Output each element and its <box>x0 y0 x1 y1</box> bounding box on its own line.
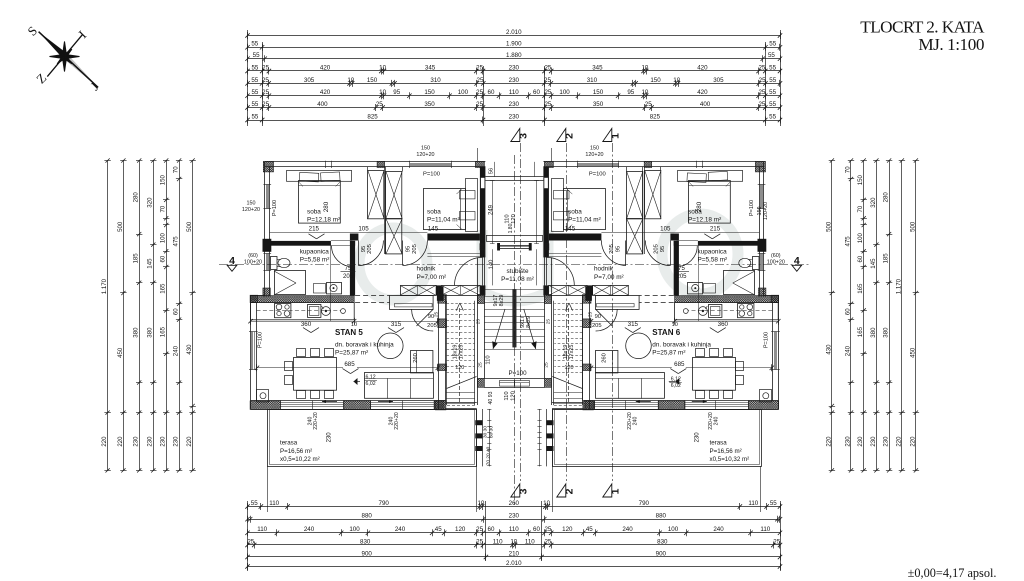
entrance door sill <box>500 245 515 247</box>
washbasin shelf <box>314 284 326 294</box>
svg-text:2: 2 <box>563 133 575 139</box>
pier NE porch corner <box>544 161 553 167</box>
bottom dimension block <box>248 506 781 508</box>
center stair arrow <box>524 309 536 349</box>
svg-text:165: 165 <box>857 326 864 337</box>
pier south mid <box>344 401 371 410</box>
east wall lower part <box>543 285 549 295</box>
svg-text:790: 790 <box>639 500 650 507</box>
porch dim 140 <box>492 249 494 285</box>
dining table <box>294 358 337 391</box>
svg-text:70: 70 <box>857 205 864 212</box>
svg-text:10: 10 <box>379 64 386 71</box>
svg-text:165: 165 <box>160 326 167 337</box>
flag 2 top <box>557 129 566 142</box>
pier south stair <box>434 401 444 410</box>
door soba1 <box>358 241 360 266</box>
svg-text:880: 880 <box>656 513 667 520</box>
svg-text:25: 25 <box>247 538 254 545</box>
svg-text:25: 25 <box>588 312 594 318</box>
wall stub bathroom NE <box>674 241 677 246</box>
svg-text:260: 260 <box>413 353 419 363</box>
svg-text:100: 100 <box>160 233 167 244</box>
svg-text:240: 240 <box>713 526 724 533</box>
svg-text:4: 4 <box>229 255 235 267</box>
left dimension block <box>107 161 109 471</box>
wardrobe K2 <box>386 172 402 219</box>
svg-text:55: 55 <box>769 89 776 96</box>
bed soba1 shelf <box>678 171 743 182</box>
pier between closets <box>436 285 442 295</box>
svg-text:55: 55 <box>769 64 776 71</box>
svg-text:205: 205 <box>609 244 615 254</box>
svg-text:230: 230 <box>870 436 877 447</box>
svg-text:1: 1 <box>609 133 621 139</box>
wardrobe K3 <box>627 219 643 254</box>
washbasin <box>688 283 703 294</box>
sink basin <box>308 305 321 318</box>
svg-text:830: 830 <box>657 538 668 545</box>
svg-text:110: 110 <box>269 500 279 507</box>
svg-text:215: 215 <box>309 226 320 233</box>
svg-text:60: 60 <box>533 526 540 533</box>
svg-text:55: 55 <box>768 52 775 59</box>
svg-text:75: 75 <box>678 266 685 272</box>
window west soba1 <box>762 185 764 209</box>
svg-text:P=16,56 m²: P=16,56 m² <box>710 448 742 455</box>
door apartment entry <box>455 257 483 285</box>
window west living <box>251 332 253 370</box>
svg-text:145: 145 <box>565 226 576 233</box>
svg-text:500: 500 <box>825 221 832 232</box>
svg-text:685: 685 <box>344 361 355 368</box>
bed soba2 shelf <box>552 179 564 232</box>
porch dim 140 <box>536 249 538 285</box>
corner pier SW <box>250 401 280 410</box>
dim 215/105/145 line <box>270 232 480 234</box>
svg-text:dn. boravak i kuhinja: dn. boravak i kuhinja <box>652 342 711 349</box>
west exterior wall upper <box>763 162 765 296</box>
terrace outline <box>268 410 477 467</box>
south exterior wall <box>584 400 779 402</box>
svg-text:900: 900 <box>656 550 667 557</box>
svg-text:380: 380 <box>870 327 877 338</box>
entrance upper step <box>514 235 542 237</box>
wall hodnik north (doors zone) <box>670 234 679 241</box>
svg-text:25: 25 <box>544 538 551 545</box>
svg-text:280: 280 <box>696 201 703 212</box>
svg-text:350: 350 <box>593 101 604 108</box>
svg-text:25: 25 <box>543 362 549 368</box>
window north soba2 P=100 <box>410 163 452 165</box>
svg-text:305: 305 <box>304 77 315 84</box>
svg-text:220: 220 <box>117 436 124 447</box>
svg-text:soba: soba <box>568 209 582 216</box>
center stair arrow <box>493 309 505 349</box>
kitchen north hatched wall <box>675 296 779 303</box>
extension line x330 <box>698 243 700 321</box>
svg-text:280: 280 <box>133 192 140 203</box>
flag 3 bottom <box>511 484 520 497</box>
threshold strip <box>500 381 515 387</box>
dim 215/105/145 line <box>549 232 759 234</box>
svg-text:1.900: 1.900 <box>506 41 522 48</box>
svg-text:900: 900 <box>362 550 373 557</box>
svg-text:240: 240 <box>395 526 406 533</box>
svg-text:70: 70 <box>160 205 167 212</box>
landing sill <box>484 378 514 380</box>
svg-text:185: 185 <box>133 253 140 264</box>
svg-text:95: 95 <box>361 246 367 252</box>
svg-text:6,12: 6,12 <box>671 377 681 383</box>
svg-text:220+20: 220+20 <box>394 412 400 430</box>
svg-text:3: 3 <box>517 133 529 139</box>
svg-text:420: 420 <box>697 89 708 96</box>
svg-text:310: 310 <box>587 77 598 84</box>
svg-text:10: 10 <box>641 89 648 96</box>
level mark <box>354 378 358 385</box>
svg-text:110: 110 <box>509 526 519 533</box>
section line 1 <box>612 143 614 481</box>
svg-text:320: 320 <box>147 197 154 208</box>
svg-text:110: 110 <box>509 89 519 96</box>
svg-text:30 30: 30 30 <box>483 426 489 438</box>
svg-text:150: 150 <box>247 201 256 207</box>
svg-text:P=11,04 m²: P=11,04 m² <box>568 217 601 224</box>
svg-text:825: 825 <box>650 113 661 120</box>
svg-text:kupaonica: kupaonica <box>698 249 728 256</box>
svg-text:145: 145 <box>147 258 154 269</box>
svg-text:P=100: P=100 <box>272 200 278 216</box>
svg-text:240: 240 <box>173 345 180 356</box>
mullion ticks north wall <box>325 161 327 168</box>
svg-text:260: 260 <box>509 500 520 507</box>
beam dashed over kitchen pass <box>355 295 390 297</box>
corner pier kitchen W <box>771 295 779 302</box>
shower <box>275 271 306 295</box>
svg-text:95: 95 <box>406 246 412 252</box>
window south living 2 (sliding) <box>595 402 659 404</box>
svg-text:8x29: 8x29 <box>499 295 505 307</box>
svg-text:6,02: 6,02 <box>671 383 681 389</box>
entrance upper step <box>486 235 514 237</box>
svg-text:315: 315 <box>628 321 639 328</box>
svg-text:450: 450 <box>117 347 124 358</box>
svg-text:10: 10 <box>672 322 678 328</box>
svg-text:P=5,58 m²: P=5,58 m² <box>300 257 330 264</box>
svg-text:110: 110 <box>525 538 535 545</box>
closet row A <box>401 286 437 296</box>
svg-text:55: 55 <box>253 52 260 59</box>
svg-text:6,12: 6,12 <box>366 375 376 381</box>
svg-text:110: 110 <box>748 500 758 507</box>
svg-text:10: 10 <box>510 538 517 545</box>
svg-text:220: 220 <box>825 436 832 447</box>
porch dim 56 <box>494 162 496 177</box>
section line 4 horizontal <box>219 264 810 266</box>
svg-text:380: 380 <box>147 327 154 338</box>
mullion ticks north wall <box>702 161 704 168</box>
door soba2 <box>402 241 404 266</box>
svg-text:±0,00=4,17 apsol.: ±0,00=4,17 apsol. <box>908 566 997 580</box>
wardrobe K3 <box>386 219 402 254</box>
svg-text:55: 55 <box>251 64 258 71</box>
wall bathroom north (black) <box>698 241 759 246</box>
svg-text:380: 380 <box>883 327 890 338</box>
door soba1 <box>670 241 672 266</box>
svg-text:420: 420 <box>320 64 331 71</box>
svg-text:55: 55 <box>251 113 258 120</box>
svg-text:475: 475 <box>844 236 851 247</box>
svg-text:60: 60 <box>844 308 851 315</box>
flag 3 top <box>511 129 520 142</box>
svg-text:185: 185 <box>883 253 890 264</box>
svg-text:205: 205 <box>676 274 687 280</box>
porch window east wall gap <box>481 178 485 189</box>
svg-text:430: 430 <box>186 344 193 355</box>
toilet <box>753 257 760 270</box>
svg-text:2: 2 <box>563 488 575 494</box>
svg-text:P=5,58 m²: P=5,58 m² <box>698 257 728 264</box>
svg-text:230: 230 <box>160 436 167 447</box>
svg-text:25: 25 <box>544 101 551 108</box>
svg-text:8x29: 8x29 <box>526 316 532 328</box>
svg-text:360: 360 <box>718 321 729 328</box>
center divider bar <box>512 289 516 347</box>
wall bathroom north (black) <box>270 241 331 246</box>
section line axis center <box>514 155 516 505</box>
extension line x330 <box>330 243 332 321</box>
porch dim 56 <box>534 162 536 177</box>
svg-text:230: 230 <box>509 113 520 120</box>
svg-text:205: 205 <box>654 244 660 254</box>
svg-text:10: 10 <box>477 500 484 507</box>
svg-text:95: 95 <box>393 89 400 96</box>
threshold strip <box>515 381 530 387</box>
closet row B <box>442 286 481 296</box>
section line 2 <box>566 143 568 481</box>
svg-text:150: 150 <box>367 77 378 84</box>
bed soba2 body <box>564 189 606 230</box>
svg-text:220+20: 220+20 <box>627 412 633 430</box>
svg-text:205: 205 <box>367 244 373 254</box>
stair flight walls <box>438 286 440 410</box>
svg-text:220+20: 220+20 <box>313 412 319 430</box>
door bathroom top <box>676 246 678 267</box>
small dim column <box>539 409 541 466</box>
svg-text:310: 310 <box>430 77 441 84</box>
apartment east wall (porch side) <box>480 167 486 258</box>
svg-text:60: 60 <box>488 526 495 533</box>
window north soba2 P=100 <box>577 163 619 165</box>
svg-text:150: 150 <box>590 146 599 152</box>
svg-text:P=100: P=100 <box>763 332 769 348</box>
svg-text:120+20: 120+20 <box>416 152 434 158</box>
svg-text:880: 880 <box>362 513 373 520</box>
svg-text:hodnik: hodnik <box>417 266 437 273</box>
svg-text:100+20: 100+20 <box>244 260 262 266</box>
svg-text:55: 55 <box>251 89 258 96</box>
stair break line <box>447 377 477 389</box>
svg-text:240: 240 <box>304 526 315 533</box>
svg-text:25: 25 <box>477 77 484 84</box>
svg-text:60: 60 <box>533 89 540 96</box>
wardrobe K1 <box>368 171 384 219</box>
svg-text:6,02: 6,02 <box>366 381 376 387</box>
center stair west wall <box>551 257 553 405</box>
dim line 215/105/145 <box>601 232 759 234</box>
stove burners <box>275 304 291 318</box>
svg-text:230: 230 <box>883 436 890 447</box>
porch dim 249 <box>536 180 538 244</box>
svg-text:320: 320 <box>870 197 877 208</box>
svg-text:P=100: P=100 <box>258 332 264 348</box>
wall stub bathroom NE <box>352 241 355 246</box>
svg-text:P=25,87 m²: P=25,87 m² <box>652 350 685 357</box>
svg-text:55: 55 <box>251 500 258 507</box>
svg-text:165: 165 <box>160 283 167 294</box>
dim check marks <box>309 234 317 239</box>
svg-text:150: 150 <box>424 89 435 96</box>
svg-text:terasa: terasa <box>280 440 298 447</box>
railing edge lines <box>552 409 554 466</box>
door apartment entry <box>546 257 574 285</box>
svg-text:145: 145 <box>870 258 877 269</box>
small dim column <box>489 409 491 466</box>
svg-text:230: 230 <box>844 436 851 447</box>
svg-text:25: 25 <box>758 89 765 96</box>
svg-text:110: 110 <box>504 391 510 400</box>
svg-text:P=25,87 m²: P=25,87 m² <box>335 350 368 357</box>
svg-text:220: 220 <box>909 436 916 447</box>
small appliance dot <box>341 309 346 314</box>
beam dashed over kitchen pass <box>639 295 674 297</box>
pier west wall low <box>759 288 766 296</box>
svg-text:500: 500 <box>117 221 124 232</box>
svg-text:205: 205 <box>343 274 354 280</box>
svg-text:25: 25 <box>759 77 766 84</box>
svg-text:230: 230 <box>509 513 520 520</box>
east wall lower part <box>480 285 486 295</box>
svg-text:280: 280 <box>883 192 890 203</box>
svg-text:55: 55 <box>251 41 258 48</box>
svg-text:240: 240 <box>622 526 633 533</box>
porch window east wall gap <box>544 178 548 189</box>
sink round basin <box>699 307 708 316</box>
flag 2 bottom <box>557 484 566 497</box>
top dimension block <box>248 35 781 37</box>
corner pier NW <box>755 161 765 172</box>
svg-text:STAN 6: STAN 6 <box>652 328 680 337</box>
svg-text:dn. boravak i kuhinja: dn. boravak i kuhinja <box>335 342 394 349</box>
dim 360 kitchen <box>251 321 356 323</box>
svg-text:685: 685 <box>674 361 685 368</box>
bed soba2 shelf <box>466 179 478 232</box>
dim 360 kitchen <box>674 321 779 323</box>
svg-text:25: 25 <box>544 89 551 96</box>
dim 685 living <box>686 367 772 369</box>
svg-text:90: 90 <box>595 314 601 320</box>
svg-text:400: 400 <box>700 101 711 108</box>
svg-text:350: 350 <box>424 101 435 108</box>
svg-text:25: 25 <box>478 362 484 368</box>
svg-text:25: 25 <box>544 526 551 533</box>
west exterior wall lower (living) <box>778 296 780 410</box>
dining table <box>693 358 736 391</box>
svg-text:120: 120 <box>455 526 466 533</box>
svg-text:100: 100 <box>349 526 360 533</box>
railing edge lines <box>476 409 478 466</box>
svg-text:360: 360 <box>301 321 312 328</box>
west exterior wall lower (living) <box>250 296 252 410</box>
corner pier kitchen W <box>250 295 258 302</box>
closet row A <box>593 286 629 296</box>
svg-text:215: 215 <box>710 226 721 233</box>
porch top edge <box>514 176 543 178</box>
svg-text:25: 25 <box>758 64 765 71</box>
porch top edge <box>485 176 514 178</box>
svg-text:17x25: 17x25 <box>569 345 575 360</box>
svg-text:55: 55 <box>769 101 776 108</box>
svg-text:230: 230 <box>857 436 864 447</box>
north exterior wall <box>265 161 486 163</box>
closet row B <box>549 286 588 296</box>
svg-text:230: 230 <box>173 436 180 447</box>
compass rose north arrow <box>39 32 99 88</box>
hodnik south niche line <box>549 253 602 255</box>
svg-text:x0,5=10,22 m²: x0,5=10,22 m² <box>280 456 320 463</box>
svg-text:140: 140 <box>488 260 494 270</box>
svg-text:10: 10 <box>351 322 357 328</box>
svg-text:MJ. 1:100: MJ. 1:100 <box>918 35 984 54</box>
svg-text:kupaonica: kupaonica <box>300 249 330 256</box>
svg-text:345: 345 <box>425 64 436 71</box>
svg-text:150: 150 <box>650 77 661 84</box>
window south living 2 (sliding) <box>371 402 435 404</box>
svg-text:1.80: 1.80 <box>508 223 514 233</box>
wardrobe K2 <box>627 172 643 219</box>
svg-text:260: 260 <box>601 353 607 363</box>
railing posts <box>475 420 482 425</box>
svg-text:45: 45 <box>435 526 442 533</box>
center treads <box>484 289 514 291</box>
svg-text:120+20: 120+20 <box>242 207 260 213</box>
svg-text:17x25: 17x25 <box>459 345 465 360</box>
bed soba1 pillows <box>299 172 318 182</box>
south exterior wall <box>251 400 446 402</box>
shower <box>724 271 755 295</box>
stair flight <box>446 301 448 405</box>
svg-text:120+20: 120+20 <box>763 202 769 220</box>
svg-text:205: 205 <box>412 244 418 254</box>
svg-text:420: 420 <box>697 64 708 71</box>
svg-text:305: 305 <box>713 77 724 84</box>
svg-text:70: 70 <box>844 166 851 173</box>
svg-text:P=100: P=100 <box>589 171 606 177</box>
west exterior wall upper <box>264 162 266 296</box>
svg-text:205: 205 <box>592 323 602 329</box>
svg-text:150: 150 <box>593 89 604 96</box>
section line 3 <box>520 143 522 481</box>
svg-text:110: 110 <box>505 214 511 223</box>
svg-text:95: 95 <box>615 246 621 252</box>
svg-text:150: 150 <box>160 175 167 186</box>
svg-text:500: 500 <box>186 221 193 232</box>
svg-text:230: 230 <box>694 432 700 443</box>
svg-text:70 20 40: 70 20 40 <box>486 446 492 465</box>
pier west wall <box>758 239 767 252</box>
svg-text:475: 475 <box>173 236 180 247</box>
